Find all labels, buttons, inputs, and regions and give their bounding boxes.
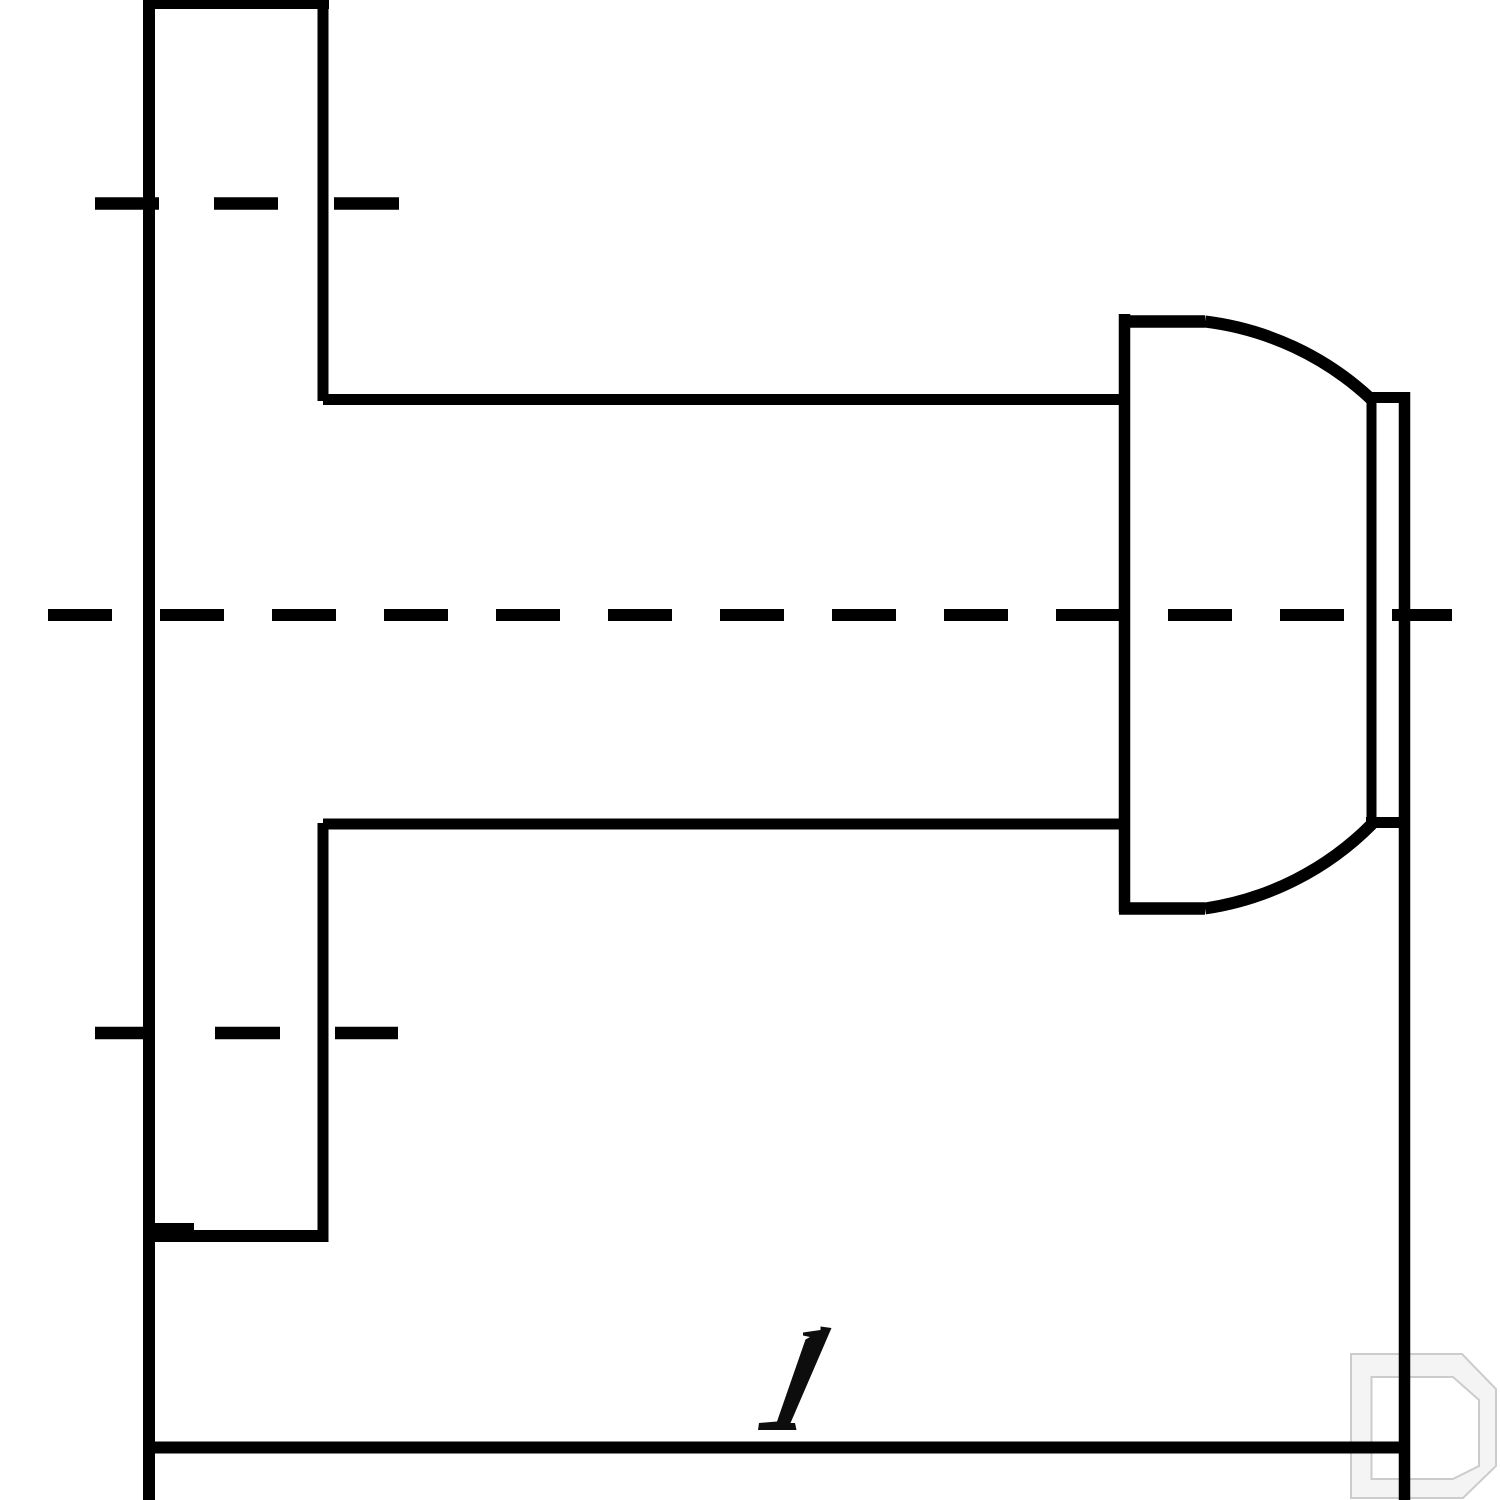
cap bottom edge	[1119, 902, 1205, 915]
watermark D logo	[1351, 1354, 1496, 1498]
flange right edge lower (vertical)	[318, 823, 329, 1240]
lower axis tick dashes	[95, 1027, 398, 1040]
shaft end rect top edge	[1366, 392, 1410, 403]
cap left vertical edge	[1119, 314, 1131, 912]
shaft bottom line	[323, 819, 1129, 830]
cap bottom arc	[1205, 824, 1372, 909]
label 1	[758, 1327, 832, 1431]
flange bottom shelf step artifact	[149, 1223, 194, 1230]
shaft end rect bottom edge	[1366, 817, 1410, 828]
flange bottom shelf	[144, 1230, 329, 1242]
flange right edge upper (vertical)	[318, 0, 329, 401]
bottom body edge	[143, 1442, 1410, 1454]
cap top edge	[1119, 315, 1205, 328]
center dashed axis line	[48, 609, 1452, 621]
flange top edge	[143, 0, 329, 9]
shaft end rect left edge	[1367, 392, 1377, 828]
right long vertical line	[1399, 392, 1411, 1500]
shaft top line	[323, 394, 1129, 405]
cap top arc	[1205, 322, 1371, 400]
flange left edge (left vertical line)	[143, 0, 155, 1500]
upper axis tick dashes	[95, 197, 399, 210]
